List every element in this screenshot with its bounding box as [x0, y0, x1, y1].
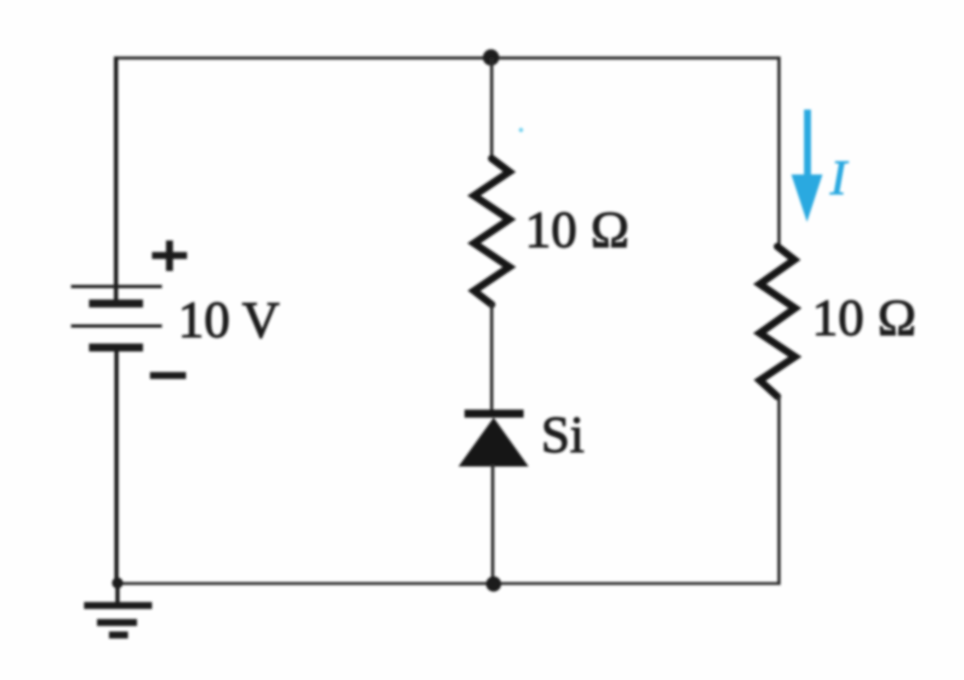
- resistor R2 10 ohm (right): [760, 247, 795, 397]
- wire bottom rail: [116, 582, 780, 585]
- wire left vertical (battery top lead): [114, 57, 118, 302]
- svg-text:I: I: [829, 149, 849, 205]
- wire left vertical (battery bottom lead): [114, 351, 118, 583]
- svg-text:10 Ω: 10 Ω: [812, 290, 917, 347]
- node top junction: [483, 49, 499, 65]
- svg-text:Si: Si: [541, 407, 584, 464]
- node ground junction: [112, 578, 123, 589]
- wire right vertical upper: [777, 57, 780, 248]
- wire middle branch between R1 and D1: [490, 303, 493, 412]
- battery E1 10 V: [71, 287, 162, 348]
- wire top rail: [115, 56, 780, 59]
- svg-text:10 V: 10 V: [178, 292, 280, 349]
- wire middle branch lower: [491, 464, 494, 584]
- resistor R1 10 ohm (middle): [474, 159, 509, 305]
- diode D1 cathode bar: [465, 410, 524, 418]
- svg-text:10 Ω: 10 Ω: [525, 202, 630, 259]
- battery plus polarity label: [152, 241, 187, 272]
- wire right vertical lower: [777, 396, 780, 585]
- stray cyan speck: [519, 128, 523, 132]
- wire middle branch upper: [490, 58, 493, 160]
- current arrow I (blue): [791, 110, 822, 222]
- battery minus polarity label: [150, 372, 186, 379]
- ground: [84, 583, 152, 635]
- diode D1 anode triangle: [459, 418, 529, 467]
- node bottom junction: [486, 576, 501, 591]
